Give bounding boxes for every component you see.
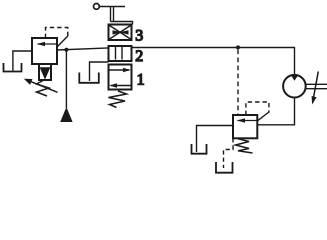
svg-text:3: 3 bbox=[135, 28, 143, 45]
svg-text:1: 1 bbox=[137, 71, 145, 88]
svg-text:2: 2 bbox=[135, 48, 143, 65]
